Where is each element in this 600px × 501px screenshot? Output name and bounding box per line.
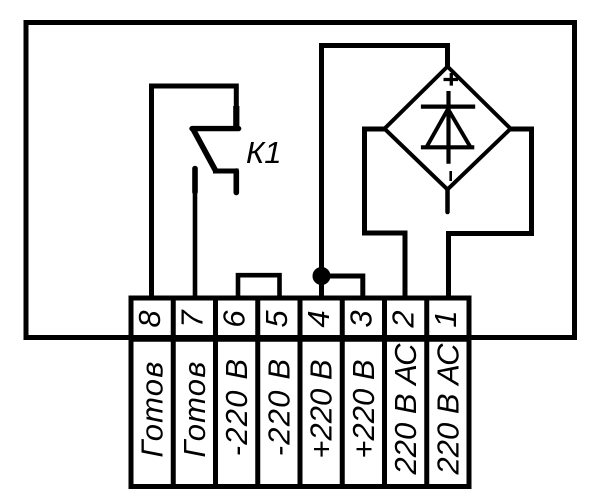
terminal cell border 5|4	[298, 298, 303, 487]
junction node A	[313, 267, 331, 285]
svg-text:1: 1	[428, 310, 463, 327]
terminal cell border 4|3	[340, 298, 345, 487]
svg-text:6: 6	[217, 310, 252, 328]
svg-text:3: 3	[343, 310, 378, 327]
relay K1 fixed contact terminal stub	[233, 106, 239, 129]
relay K1 common terminal stub	[192, 169, 198, 193]
wire bridge AC right to pin1	[449, 129, 532, 298]
svg-text:7: 7	[174, 309, 209, 328]
bridge minus dash	[449, 171, 452, 181]
terminal cell border 8|7	[171, 298, 176, 487]
bridge plus sign	[444, 73, 459, 86]
svg-text:5: 5	[259, 310, 294, 328]
svg-text:220 В АС: 220 В АС	[388, 343, 423, 476]
svg-text:220 В АС: 220 В АС	[430, 343, 465, 476]
relay K1 moving arm	[193, 129, 216, 171]
svg-text:+220 В: +220 В	[346, 359, 381, 458]
terminal cell border 2|1	[424, 298, 429, 487]
relay K1 lower contact bar	[213, 169, 239, 174]
svg-text:2: 2	[386, 310, 421, 328]
wire bridge AC left to pin2	[365, 129, 406, 298]
bridge rectifier VD1 diamond	[385, 67, 511, 190]
terminal cell border 3|2	[382, 298, 387, 487]
diode cathode bar	[421, 104, 475, 108]
diode triangle	[426, 109, 471, 148]
terminal cell border 6|5	[255, 298, 260, 487]
jumper wire pins 6-5	[238, 275, 280, 298]
svg-text:8: 8	[132, 310, 167, 328]
wire pin8 to relay fixed contact	[152, 86, 237, 298]
svg-text:4: 4	[301, 310, 336, 327]
svg-text:Готов: Готов	[135, 360, 170, 457]
terminal cell border 7|6	[213, 298, 218, 487]
relay K1 lower contact stub	[234, 171, 240, 193]
svg-text:-220 В: -220 В	[261, 358, 296, 457]
wire node A to pin3	[322, 276, 363, 298]
svg-text:+220 В: +220 В	[304, 359, 339, 458]
device enclosure box	[26, 23, 575, 338]
terminal block separator line	[131, 336, 469, 342]
wire bridge plus output to node A	[322, 46, 448, 299]
terminal block outer frame	[131, 298, 469, 487]
svg-text:-220 В: -220 В	[219, 358, 254, 457]
svg-text:Готов: Готов	[177, 360, 212, 457]
diode axis line	[446, 91, 450, 164]
diode anode bar	[421, 145, 474, 149]
relay K1 fixed contact bar	[192, 126, 239, 131]
bridge minus stub	[445, 190, 450, 213]
wire relay common to pin7	[193, 190, 198, 298]
svg-text:К1: К1	[246, 135, 282, 170]
